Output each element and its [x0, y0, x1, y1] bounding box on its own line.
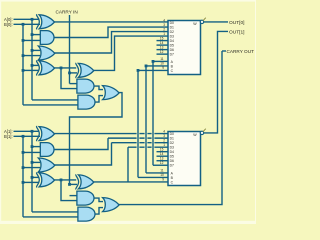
wire B[1] input rail — [14, 135, 41, 137]
net flag tick U1 — [203, 18, 206, 21]
or gate OR1a — [38, 46, 55, 60]
wire B[0] input rail — [14, 23, 41, 25]
wire U2 W out to OUT[1] riser — [204, 31, 228, 132]
wire AND1b out riser — [54, 138, 108, 149]
junction A[0] tap XOR4a — [31, 64, 34, 67]
junction A[1] rail — [31, 130, 34, 133]
svg-text:3: 3 — [163, 134, 165, 138]
wire XOR2b branch riser to D3 — [127, 147, 129, 182]
wire AND3a out to OR2a bottom input — [95, 96, 103, 103]
wire A[0] to AND3a top input — [32, 99, 79, 101]
junction net S2 top — [152, 60, 155, 63]
or gate OR2a carry0 — [103, 86, 120, 100]
xor gate XOR1b — [36, 126, 54, 141]
svg-text:D0: D0 — [170, 132, 174, 136]
wire U2 D4 pin stub — [157, 151, 169, 153]
svg-text:12: 12 — [160, 50, 164, 54]
wire A[0] vertical bus — [31, 19, 33, 100]
svg-text:D7: D7 — [170, 53, 174, 57]
svg-text:2: 2 — [163, 27, 165, 31]
junction A[0] tap OR1a — [31, 49, 34, 52]
svg-text:2: 2 — [163, 138, 165, 142]
wire B[1] tap to OR1b — [23, 167, 40, 169]
wire A[0] tap to AND1a — [32, 34, 41, 36]
svg-text:D0: D0 — [170, 21, 174, 25]
wire A[0] input rail — [14, 18, 40, 20]
multiplexer U2 body — [168, 132, 201, 186]
svg-text:D1: D1 — [170, 25, 174, 29]
wire XOR1a out to U1 D0 — [54, 21, 169, 23]
junction B[1] rail — [22, 135, 25, 138]
junction A[1] tap OR1b — [31, 161, 34, 164]
wire OR2a carry0 route down-left-down — [70, 93, 123, 185]
wire XOR2b out to U2 C select — [94, 181, 168, 183]
wire A[1] input rail — [14, 130, 40, 132]
xor gate XOR2b sum1 — [76, 174, 94, 189]
svg-text:B[0]:: B[0]: — [4, 22, 13, 27]
junction B[1] tap OR1b — [22, 166, 25, 169]
output bubble U2 W — [200, 131, 203, 134]
and gate AND1a — [40, 31, 54, 45]
svg-text:OUT[1]: OUT[1] — [229, 30, 244, 36]
wire net S0 stub to U1 C — [138, 69, 168, 71]
svg-text:B[1]:: B[1]: — [4, 134, 13, 139]
svg-text:D5: D5 — [170, 44, 174, 48]
wire B[1] tap to AND1b — [23, 151, 41, 153]
wire net S1 vertical — [145, 66, 147, 173]
wire B[0] vertical bus — [22, 24, 24, 105]
svg-text:D6: D6 — [170, 48, 174, 52]
xor gate XOR1a — [36, 14, 54, 29]
xor gate XOR4a — [36, 60, 54, 75]
svg-text:9: 9 — [162, 66, 164, 70]
net flag tick U2 — [203, 129, 206, 132]
wire net S2 to U2 D7 — [153, 164, 168, 166]
wire XOR2a out to U1 D3 — [94, 36, 168, 70]
wire B[0] tap to OR1a — [23, 55, 40, 57]
junction B[1] tap XOR4b — [22, 181, 25, 184]
wire U1 W out to OUT[0] — [204, 21, 228, 23]
xor gate XOR2a sum0 — [76, 63, 94, 78]
wire carry0 to AND2b top input — [70, 195, 79, 197]
svg-text:D3: D3 — [170, 34, 174, 38]
svg-text:W: W — [193, 133, 197, 137]
wire XOR4b branch to AND2b bottom input — [61, 180, 78, 201]
wire B[0] tap to XOR4a — [23, 69, 39, 71]
svg-text:D4: D4 — [170, 150, 174, 154]
svg-text:14: 14 — [160, 152, 164, 156]
wire AND1b out to U2 D1 — [108, 137, 168, 139]
junction carry0 to XOR2b — [68, 183, 71, 186]
wire B[0] tap to AND1a — [23, 39, 41, 41]
svg-text:D7: D7 — [170, 164, 174, 168]
junction A[1] tap AND1b — [31, 145, 34, 148]
and gate AND2b — [77, 191, 94, 205]
junction carry-in to XOR2a — [68, 72, 71, 75]
junction B[0] tap OR1a — [22, 54, 25, 57]
wire B[1] vertical bus — [22, 136, 24, 217]
or gate OR2b carry-out — [103, 198, 120, 212]
svg-text:OUT[0]: OUT[0] — [229, 20, 244, 26]
wire A[1] to AND3b top input — [32, 211, 79, 213]
junction A[0] tap AND1a — [31, 33, 34, 36]
wire A[0] tap to XOR4a — [32, 64, 39, 66]
wire D3b to U2 — [128, 146, 168, 148]
svg-text:15: 15 — [160, 147, 164, 151]
output bubble U1 W — [200, 20, 203, 23]
wire A[1] tap to XOR4b — [32, 176, 39, 178]
wire CARRY IN vertical — [69, 15, 71, 84]
svg-text:10: 10 — [160, 173, 164, 177]
and gate AND3a — [78, 95, 95, 109]
wire U2 D5 pin stub — [157, 155, 169, 157]
wire A[0] tap to OR1a — [32, 49, 40, 51]
xor gate XOR4b — [36, 172, 54, 187]
wire OR1b out riser — [54, 143, 112, 165]
junction B[1] tap AND1b — [22, 151, 25, 154]
svg-text:D4: D4 — [170, 39, 174, 43]
wire OR1b out to U2 D2 — [112, 142, 169, 144]
wire U1 D6 pin stub — [157, 49, 169, 51]
junction B[0] tap AND1a — [22, 39, 25, 42]
svg-text:11: 11 — [160, 57, 164, 61]
wire carry-in stub to XOR2a — [70, 72, 78, 74]
wire AND2b out to OR2b top input — [94, 198, 103, 202]
wire CARRY OUT stub — [222, 50, 226, 52]
wire net S1 to U2 A — [146, 172, 168, 174]
wire XOR4b out to XOR2b — [54, 179, 77, 181]
junction net S0 top — [137, 69, 140, 72]
svg-text:12: 12 — [160, 161, 164, 165]
wire net S1 stub to U1 B — [146, 65, 168, 67]
svg-text:15: 15 — [160, 36, 164, 40]
junction A[0] rail — [31, 18, 34, 21]
svg-text:D2: D2 — [170, 30, 174, 34]
svg-text:D1: D1 — [170, 136, 174, 140]
junction XOR4b out branch — [60, 179, 63, 182]
svg-text:9: 9 — [162, 178, 164, 182]
wire net S2 vertical — [152, 61, 154, 165]
wire XOR1b out to U2 D0 — [54, 133, 169, 135]
svg-text:13: 13 — [160, 156, 164, 160]
wire B[1] tap to XOR4b — [23, 181, 39, 183]
wire net S0 vertical — [137, 70, 139, 177]
junction B[0] rail — [22, 23, 25, 26]
wire A[1] tap to AND1b — [32, 146, 41, 148]
and gate AND2a — [77, 79, 94, 93]
svg-text:11: 11 — [160, 169, 164, 173]
svg-text:D2: D2 — [170, 141, 174, 145]
svg-text:4: 4 — [163, 129, 165, 133]
svg-text:CARRY IN: CARRY IN — [56, 10, 78, 15]
svg-text:D6: D6 — [170, 159, 174, 163]
wire A[1] vertical bus — [31, 131, 33, 212]
junction A[1] tap XOR4b — [31, 176, 34, 179]
wire A[1] tap to OR1b — [32, 161, 40, 163]
wire net S0 to U2 B — [138, 176, 168, 178]
svg-text:D5: D5 — [170, 155, 174, 159]
wire OR2b carry-out run right-up — [119, 51, 222, 205]
junction XOR4a out branch — [60, 67, 63, 70]
wire OR1a out to U1 D2 — [54, 32, 168, 53]
and gate AND1b — [40, 143, 54, 157]
wire AND2a out to OR2a top input — [94, 86, 103, 90]
wire carry0 stub to XOR2b — [70, 183, 78, 185]
svg-text:D3: D3 — [170, 145, 174, 149]
wire carry-in to AND2a top input — [70, 83, 79, 85]
wire AND3b out to OR2b bottom input — [95, 208, 103, 215]
wire XOR4a out to XOR2a — [54, 67, 77, 69]
wire net S2 stub to U1 A — [153, 60, 168, 62]
or gate OR1b — [38, 158, 55, 172]
multiplexer U1 body — [168, 21, 201, 75]
svg-text:4: 4 — [163, 18, 165, 22]
svg-text:13: 13 — [160, 45, 164, 49]
and gate AND3b — [78, 207, 95, 221]
wire B[0] to AND3a bottom input — [23, 104, 79, 106]
wire U2 D6 pin stub — [157, 160, 169, 162]
wire XOR4a branch to AND2a bottom input — [61, 68, 78, 89]
svg-text:10: 10 — [160, 62, 164, 66]
wire B[1] to AND3b bottom input — [23, 216, 79, 218]
wire AND1a out to U1 D1 — [54, 27, 168, 37]
junction net S1 top — [145, 65, 148, 68]
svg-text:3: 3 — [163, 23, 165, 27]
svg-text:W: W — [193, 22, 197, 26]
wire U1 D5 pin stub — [157, 44, 169, 46]
svg-text:1: 1 — [163, 143, 165, 147]
wire U1 D7 pin stub — [157, 53, 169, 55]
wire U1 D4 pin stub — [157, 40, 169, 42]
svg-text:CARRY OUT: CARRY OUT — [227, 49, 255, 54]
junction B[0] tap XOR4a — [22, 69, 25, 72]
svg-text:1: 1 — [163, 32, 165, 36]
svg-text:14: 14 — [160, 41, 164, 45]
